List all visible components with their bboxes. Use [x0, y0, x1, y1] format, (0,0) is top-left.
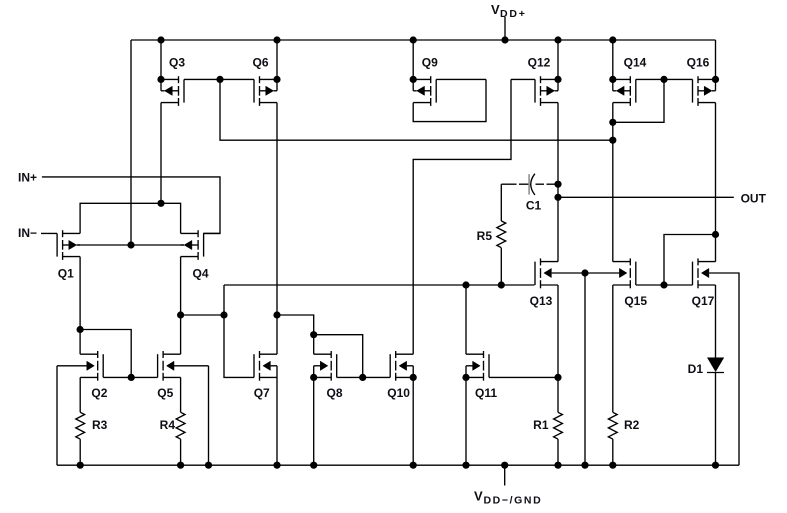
junction: Q11 drain on bus	[462, 281, 469, 288]
transistor Q1: bulk arrow (p-channel)	[63, 244, 69, 246]
transistor Q8: gate bar	[336, 354, 338, 377]
transistor Q11: source-bulk tie	[465, 366, 467, 378]
transistor Q17: drain lead	[698, 261, 716, 263]
junction: Q8/Q10 gate node	[359, 374, 366, 381]
transistor Q5: source lead	[163, 376, 181, 378]
resistor R5	[500, 184, 502, 221]
svg-text:Q17: Q17	[692, 294, 715, 308]
junction: source row x=715.5	[712, 76, 719, 83]
svg-text:Q12: Q12	[528, 56, 551, 70]
wire: second stage input bus (to Q13 gate)	[224, 284, 535, 286]
wire: Q5 bulk drop to rail	[208, 366, 210, 465]
transistor Q6: channel	[259, 76, 261, 83]
transistor Q14: gate wire	[636, 78, 664, 80]
transistor Q5: drain lead	[163, 353, 181, 355]
transistor Q2: bulk lead	[57, 365, 87, 367]
junction: top rail x=277	[273, 36, 280, 43]
transistor Q7: source-bulk tie	[276, 366, 278, 378]
transistor Q5: gate bar	[157, 354, 159, 377]
svg-text:Q15: Q15	[624, 294, 647, 308]
transistor Q8: drain lead	[314, 353, 332, 355]
wire: Q4/Q5 drain bus to Q7 gate riser	[181, 314, 224, 316]
transistor Q15: gate wire	[636, 284, 664, 286]
junction: Q1/Q4 bulk to VDD	[127, 241, 134, 248]
transistor Q12: gate wire	[511, 78, 535, 80]
wire: VDD rail to Q1/Q4 bulk (left drop)	[130, 40, 132, 245]
transistor Q8: gate wire	[337, 376, 363, 378]
transistor Q8: source lead	[314, 376, 332, 378]
junction: Q11 gate / Q13 source / R1	[554, 374, 561, 381]
svg-text:OUT: OUT	[741, 192, 767, 206]
junction: Q11 source	[462, 374, 469, 381]
junction: Q2/Q5 gate node	[128, 374, 135, 381]
transistor Q17: channel	[697, 258, 699, 265]
junction: Q8 drain	[310, 331, 317, 338]
wire: Q6 drain down to Q7 drain	[276, 103, 278, 315]
wire: Q2 drain to Q2/Q5 gates (mirror tie)	[80, 330, 131, 378]
transistor Q9: gate wire	[436, 78, 486, 80]
transistor Q16: gate wire	[664, 78, 693, 80]
resistor R3	[79, 377, 81, 412]
transistor Q16: drain lead	[698, 78, 716, 80]
transistor Q3: drain lead	[161, 78, 179, 80]
transistor Q9: gate bar	[435, 79, 437, 102]
svg-text:Q7: Q7	[254, 386, 270, 400]
transistor Q9: drain lead	[413, 78, 431, 80]
wire: Q13 source down through R1 node	[557, 285, 559, 412]
junction: Q8 source	[310, 374, 317, 381]
junction: bottom rail x=208.5	[205, 462, 212, 469]
transistor Q12: source-bulk tie	[557, 79, 559, 90]
wire: bus drop to Q7 gate	[224, 285, 254, 377]
transistor Q5: bulk lead	[174, 365, 209, 367]
transistor Q2: gate wire	[103, 376, 131, 378]
transistor Q9: channel	[430, 76, 432, 83]
transistor Q1: gate bar	[56, 233, 58, 256]
transistor Q8: bulk arrow (n-channel)	[320, 361, 328, 370]
junction: tail to Q3 drain	[157, 200, 164, 207]
transistor Q15: channel	[629, 258, 631, 265]
transistor Q1: source lead	[63, 256, 81, 258]
junction: source row x=664	[660, 76, 667, 83]
transistor Q2: drain lead	[80, 353, 98, 355]
junction: Q17 drain node	[712, 231, 719, 238]
svg-text:Q1: Q1	[58, 267, 74, 281]
wire: IN+ to Q4 gate	[42, 177, 220, 234]
wire: Q12 drain down (compensation node) to Q13 drain	[557, 103, 559, 262]
transistor Q13: source lead	[541, 284, 559, 286]
svg-text:DD−/GND: DD−/GND	[484, 495, 543, 507]
transistor Q3: gate wire	[184, 78, 220, 80]
transistor Q6: bulk arrow (p-channel)	[260, 90, 266, 92]
svg-text:V: V	[474, 489, 483, 504]
transistor Q10: bulk arrow (n-channel)	[399, 361, 407, 370]
junction: mirror wire to Q14 drain	[609, 137, 616, 144]
transistor Q8: bulk lead	[314, 365, 321, 367]
wire: Q13/Q15 bulk tie	[552, 272, 620, 274]
transistor Q12: source lead	[541, 102, 559, 104]
wire: Q16 drain down to Q17 drain	[715, 103, 717, 262]
wire: OUT line	[558, 196, 734, 198]
junction: top rail x=505	[501, 36, 508, 43]
transistor Q4: source lead	[181, 256, 199, 258]
wire: Q3 source to rail	[160, 40, 162, 79]
wire: Q8 source to rail	[313, 377, 315, 465]
transistor Q9: bulk arrow (p-channel)	[425, 90, 431, 92]
wire: Q7 source to rail	[276, 377, 278, 465]
transistor Q7: bulk arrow (n-channel)	[263, 361, 271, 370]
transistor Q1: drain lead	[63, 232, 81, 234]
wire: Q15 source down to R2	[612, 285, 614, 412]
wire: VDD+ supply stub	[504, 17, 506, 40]
wire: Q11 drain up to second-stage bus	[465, 285, 467, 354]
wire: D1 cathode to rail	[715, 373, 717, 466]
node: Q3/Q6 gate junction to mirror wire	[220, 79, 613, 140]
svg-text:Q10: Q10	[387, 386, 410, 400]
transistor Q14: drain lead	[613, 78, 631, 80]
transistor Q12: bulk arrow (p-channel)	[541, 90, 547, 92]
junction: source row x=277	[273, 76, 280, 83]
transistor Q11: bulk lead	[466, 365, 473, 367]
wire: Q16 source to rail	[715, 40, 717, 79]
transistor Q12: drain lead	[541, 78, 559, 80]
svg-text:R1: R1	[533, 418, 549, 432]
wire: Q10 source to rail	[412, 377, 414, 465]
wire: Q8 drain-gate loop	[314, 335, 363, 378]
transistor Q2: channel	[97, 351, 99, 358]
transistor Q10: bulk lead	[407, 365, 414, 367]
capacitor C1	[528, 174, 530, 194]
transistor Q17: gate bar	[692, 262, 694, 285]
transistor Q17: source lead	[698, 284, 716, 286]
transistor Q15: source lead	[613, 284, 631, 286]
svg-text:IN−: IN−	[18, 226, 37, 240]
junction: source row x=413.2	[410, 76, 417, 83]
diode D1	[707, 358, 723, 372]
junction: top rail x=558	[554, 36, 561, 43]
resistor R2	[608, 412, 617, 439]
wire: Q4 drain down to Q5 drain	[180, 257, 182, 315]
junction: Q4/Q5 drains	[177, 311, 184, 318]
wire: Q3 drain to input-pair tail	[160, 103, 162, 204]
transistor Q12: gate bar	[534, 79, 536, 102]
resistor R4	[180, 377, 182, 412]
junction: source row x=558	[554, 76, 561, 83]
junction: source row x=161	[157, 76, 164, 83]
transistor Q6: gate wire	[220, 78, 254, 80]
transistor Q1: channel	[62, 230, 64, 237]
wire: Q1 drain down to Q2 drain	[79, 257, 81, 355]
transistor Q10: channel	[395, 351, 397, 358]
transistor Q2: gate bar	[102, 354, 104, 377]
wire: Q14 source to rail	[612, 40, 614, 79]
junction: bus drop x=224	[220, 311, 227, 318]
junction: bottom rail x=504.7	[501, 462, 508, 469]
transistor Q3: gate bar	[183, 79, 185, 102]
junction: bottom rail x=413.2	[410, 462, 417, 469]
svg-text:Q5: Q5	[157, 386, 173, 400]
svg-text:IN+: IN+	[18, 171, 37, 185]
junction: Q14 drain/gate	[609, 119, 616, 126]
junction: Q1 drain / Q2 drain / mirror	[77, 326, 84, 333]
wire: Q6/Q7 drain node to Q8 drain	[277, 315, 314, 335]
svg-text:C1: C1	[526, 199, 542, 213]
svg-text:Q14: Q14	[624, 56, 647, 70]
wire: bus to Q5 drain (top lead riser)	[180, 315, 182, 354]
junction: source row x=220	[216, 76, 223, 83]
transistor Q13: drain lead	[541, 261, 559, 263]
transistor Q13: bulk arrow (n-channel)	[544, 268, 552, 277]
transistor Q6: source lead	[260, 102, 278, 104]
wire: Q14 drain-gate loop	[613, 79, 664, 122]
svg-text:Q4: Q4	[192, 267, 208, 281]
svg-text:Q9: Q9	[422, 56, 438, 70]
transistor Q7: drain lead	[260, 353, 278, 355]
wire: Q11 source to rail	[465, 377, 467, 465]
junction: top rail x=413.2	[410, 36, 417, 43]
transistor Q5: bulk arrow (n-channel)	[167, 361, 175, 370]
transistor Q7: source lead	[260, 376, 278, 378]
svg-text:Q16: Q16	[687, 56, 710, 70]
transistor Q16: channel	[697, 76, 699, 83]
transistor Q13: channel	[540, 258, 542, 265]
junction: C1 to Q12 drain	[554, 181, 561, 188]
svg-text:DD+: DD+	[500, 8, 527, 20]
transistor Q15: bulk arrow (n-channel)	[619, 268, 627, 277]
wire: bottom VDD-/GND rail	[57, 464, 739, 466]
transistor Q10: drain lead	[396, 353, 414, 355]
transistor Q2: bulk arrow (n-channel)	[87, 361, 95, 370]
junction: top rail x=612.8	[609, 36, 616, 43]
transistor Q11: drain lead	[466, 353, 484, 355]
transistor Q4: channel	[197, 230, 199, 237]
svg-text:R5: R5	[477, 229, 493, 243]
transistor Q11: gate bar	[488, 354, 490, 377]
junction: Q13/Q15 bulk node	[581, 269, 588, 276]
junction: Q6/Q7 drains	[273, 311, 280, 318]
transistor Q17: bulk arrow (n-channel)	[701, 268, 709, 277]
transistor Q11: source lead	[466, 376, 484, 378]
junction: top rail x=161	[157, 36, 164, 43]
transistor Q12: channel	[540, 76, 542, 83]
junction: source row x=612.8	[609, 76, 616, 83]
transistor Q16: source lead	[698, 102, 716, 104]
wire: input pair tail (Q1/Q4 sources)	[80, 203, 181, 233]
transistor Q16: bulk arrow (p-channel)	[698, 90, 704, 92]
junction: bottom rail x=466	[462, 462, 469, 469]
wire: Q13/Q15 bulks to negative rail	[584, 273, 586, 465]
wire: Q2 bulk to rail (left end)	[56, 366, 58, 465]
transistor Q4: gate wire	[204, 232, 220, 234]
transistor Q14: bulk arrow (p-channel)	[624, 90, 630, 92]
svg-text:Q6: Q6	[252, 56, 268, 70]
transistor Q10: gate wire	[363, 376, 391, 378]
wire: Q8 drain riser	[313, 335, 315, 355]
transistor Q11: gate wire	[489, 376, 558, 378]
junction: bottom rail x=313.7	[310, 462, 317, 469]
transistor Q5: gate wire	[131, 376, 157, 378]
wire: Q17 bulk to negative rail	[709, 273, 739, 465]
transistor Q3: bulk arrow (p-channel)	[172, 90, 178, 92]
transistor Q7: bulk lead	[270, 365, 277, 367]
svg-text:D1: D1	[688, 362, 704, 376]
transistor Q3: source-bulk tie	[160, 79, 162, 90]
transistor Q4: bulk arrow (p-channel)	[192, 244, 198, 246]
transistor Q8: channel	[330, 351, 332, 358]
transistor Q13: gate bar	[534, 262, 536, 285]
wire: VDD- supply stub	[504, 465, 506, 485]
transistor Q15: drain lead	[613, 261, 631, 263]
svg-text:Q11: Q11	[475, 386, 497, 400]
transistor Q5: channel	[162, 351, 164, 358]
svg-text:Q8: Q8	[326, 386, 342, 400]
transistor Q6: drain lead	[260, 78, 278, 80]
resistor R1	[554, 412, 563, 439]
junction: Q15/Q17 gate node	[660, 281, 667, 288]
transistor Q4: drain lead	[181, 232, 199, 234]
svg-text:R4: R4	[160, 418, 176, 432]
junction: Q10 source	[410, 374, 417, 381]
svg-text:R3: R3	[92, 418, 108, 432]
junction: bottom rail x=715.5	[712, 462, 719, 469]
transistor Q2: source lead	[80, 376, 98, 378]
transistor Q3: source lead	[161, 102, 179, 104]
wire: Q6 source to rail	[276, 40, 278, 79]
transistor Q11: channel	[483, 351, 485, 358]
transistor Q7: channel	[259, 351, 261, 358]
svg-text:Q2: Q2	[91, 386, 107, 400]
wire: Q9 source to rail	[412, 40, 414, 79]
junction: bottom rail x=612.8	[609, 462, 616, 469]
wire: C1 right lead (dashed segments)	[536, 183, 545, 185]
transistor Q14: source lead	[613, 102, 631, 104]
junction: bottom rail x=277	[273, 462, 280, 469]
svg-text:V: V	[491, 2, 500, 17]
transistor Q15: gate bar	[635, 262, 637, 285]
transistor Q14: source-bulk tie	[612, 79, 614, 90]
transistor Q1: gate wire	[41, 232, 57, 234]
transistor Q9: source-bulk tie	[412, 79, 414, 90]
transistor Q10: source-bulk tie	[412, 366, 414, 378]
transistor Q14: gate bar	[635, 79, 637, 102]
transistor Q9: source lead	[413, 102, 431, 104]
wire: Q14 drain down to Q15 drain	[612, 103, 614, 262]
junction: bottom rail x=558	[554, 462, 561, 469]
transistor Q14: channel	[629, 76, 631, 83]
junction: R5 on bus	[498, 281, 505, 288]
transistor Q8: source-bulk tie	[313, 366, 315, 378]
transistor Q4: gate bar	[203, 233, 205, 256]
wire: Q12 source to rail	[557, 40, 559, 79]
wire: Q1/Q4 bulk tie wire	[77, 244, 184, 246]
transistor Q11: bulk arrow (n-channel)	[473, 361, 481, 370]
transistor Q16: gate bar	[692, 79, 694, 102]
transistor Q6: gate bar	[253, 79, 255, 102]
wire: Q17 source to D1 anode	[715, 285, 717, 358]
wire: top VDD+ rail	[131, 39, 716, 41]
wire: Q17 drain to Q15/Q17 gates	[664, 235, 716, 286]
wire: C1 left lead (dashed segments)	[501, 183, 516, 185]
transistor Q10: gate bar	[389, 354, 391, 377]
svg-text:Q13: Q13	[530, 294, 553, 308]
svg-text:R2: R2	[624, 418, 640, 432]
wire: Q9 drain-gate loop	[413, 79, 486, 121]
transistor Q17: gate wire	[664, 284, 693, 286]
transistor Q7: gate bar	[253, 354, 255, 377]
transistor Q16: source-bulk tie	[715, 79, 717, 90]
wire: Q12 gate route to Q8/Q10 mirror	[413, 79, 511, 354]
transistor Q10: source lead	[396, 376, 414, 378]
junction: bottom rail x=585	[581, 462, 588, 469]
transistor Q6: source-bulk tie	[276, 79, 278, 90]
junction: OUT node	[554, 194, 561, 201]
wire: bus to Q7 drain (top lead riser)	[276, 315, 278, 354]
junction: bottom rail x=180.6	[177, 462, 184, 469]
transistor Q3: channel	[178, 76, 180, 83]
junction: bottom rail x=80.2	[77, 462, 84, 469]
svg-text:Q3: Q3	[169, 56, 185, 70]
